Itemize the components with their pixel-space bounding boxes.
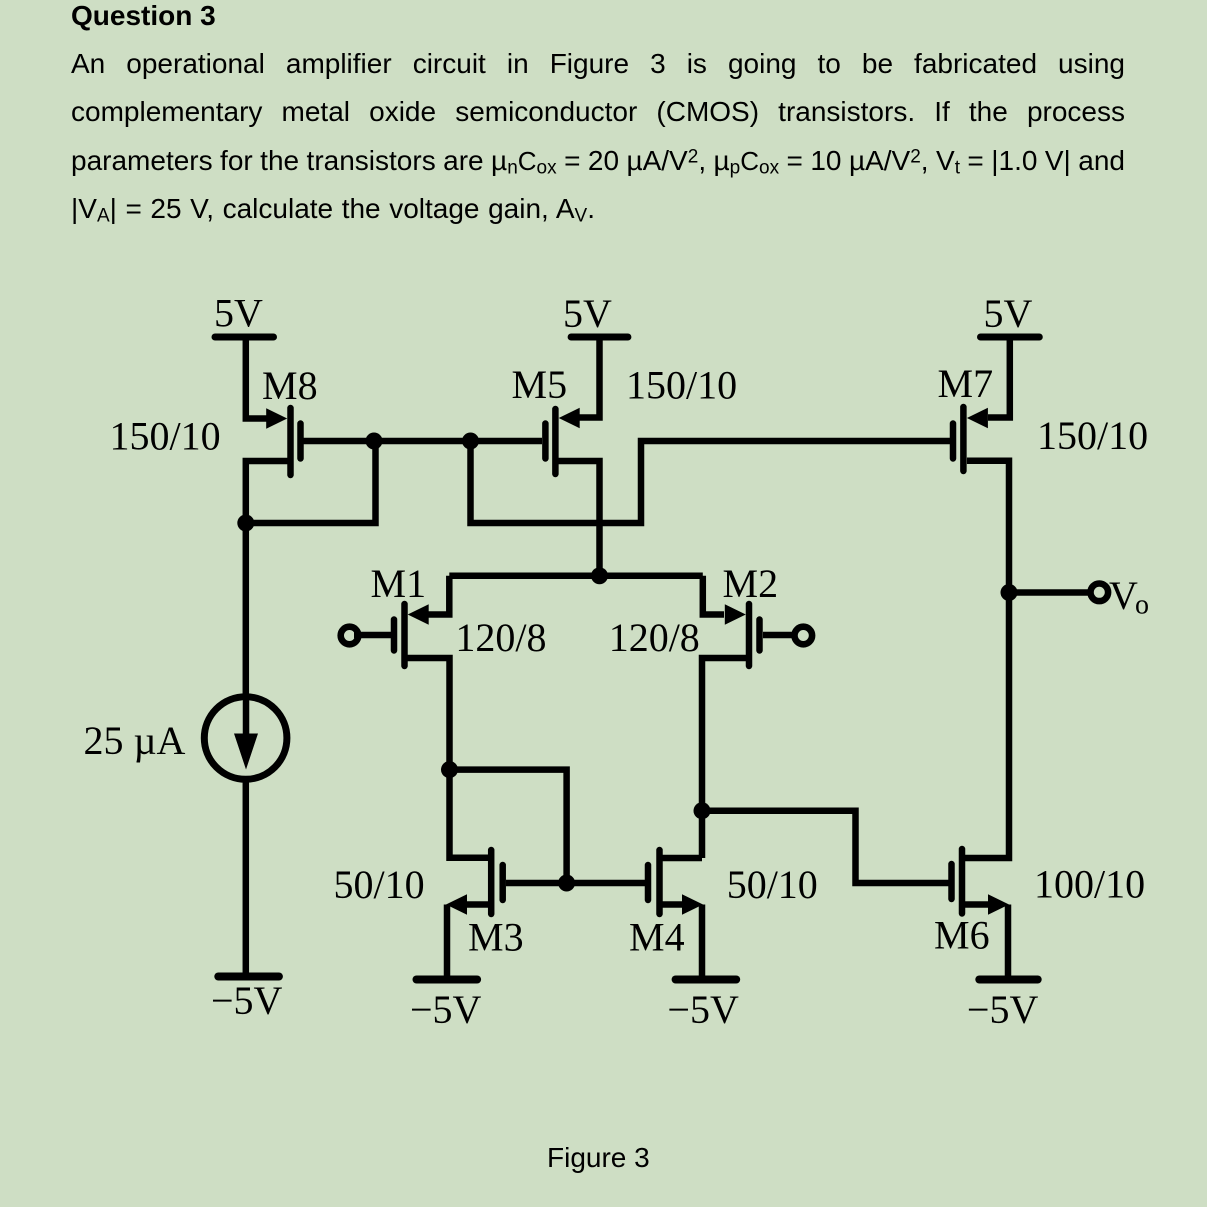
svg-text:M4: M4	[629, 915, 685, 960]
svg-text:M8: M8	[262, 363, 318, 408]
svg-text:5V: 5V	[214, 291, 263, 336]
svg-text:150/10: 150/10	[110, 414, 221, 459]
svg-text:25 µA: 25 µA	[84, 718, 186, 763]
svg-text:150/10: 150/10	[1037, 413, 1148, 458]
svg-text:M5: M5	[512, 362, 568, 407]
svg-text:M1: M1	[371, 561, 427, 606]
svg-text:M6: M6	[934, 913, 990, 958]
svg-text:M2: M2	[723, 561, 779, 606]
svg-text:−5V: −5V	[211, 978, 283, 1023]
svg-text:50/10: 50/10	[334, 862, 425, 907]
svg-text:V: V	[1109, 573, 1138, 618]
svg-text:120/8: 120/8	[609, 615, 700, 660]
svg-text:150/10: 150/10	[626, 363, 737, 408]
svg-text:50/10: 50/10	[727, 862, 818, 907]
svg-text:5V: 5V	[563, 291, 612, 336]
svg-text:M7: M7	[938, 361, 994, 406]
svg-text:100/10: 100/10	[1034, 862, 1145, 907]
svg-text:5V: 5V	[984, 291, 1033, 336]
svg-text:−5V: −5V	[967, 987, 1039, 1032]
svg-text:120/8: 120/8	[455, 615, 546, 660]
svg-text:M3: M3	[468, 915, 524, 960]
svg-text:o: o	[1135, 590, 1149, 621]
svg-text:−5V: −5V	[410, 987, 482, 1032]
svg-text:−5V: −5V	[667, 987, 739, 1032]
